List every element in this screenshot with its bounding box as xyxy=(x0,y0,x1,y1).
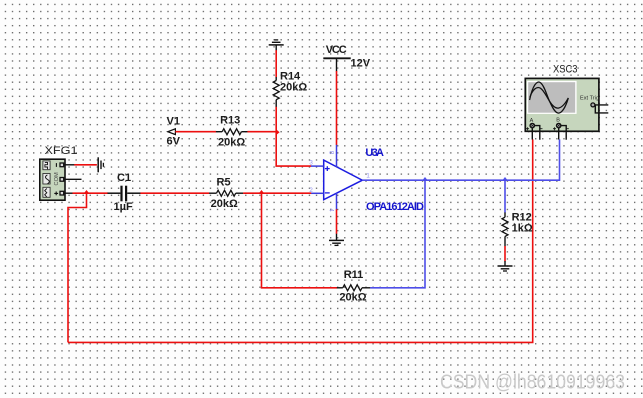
svg-text:V1: V1 xyxy=(167,116,180,128)
wire: R12 to ground xyxy=(504,246,506,261)
capacitor C1 1uF xyxy=(108,172,141,213)
node A junction (R13 joins R14 line) xyxy=(276,129,279,135)
node E junction (R12 tap) xyxy=(502,177,507,180)
svg-text:R14: R14 xyxy=(280,70,301,82)
wire: C1 to R5 xyxy=(140,192,209,194)
wire: XFG1 to C1 xyxy=(73,192,109,194)
resistor R5 20kOhm (horizontal) xyxy=(209,177,243,211)
wire: node E down to R12 xyxy=(504,180,506,212)
wire: R5 to op-amp pin 2 xyxy=(243,192,311,194)
svg-text:8: 8 xyxy=(327,151,334,155)
wire: XFG1 top terminal stub xyxy=(64,164,75,166)
svg-text:R11: R11 xyxy=(344,269,364,281)
wire: R13 to node A xyxy=(247,131,277,133)
ground GND (XFG1, rotated 90) xyxy=(98,157,103,172)
svg-text:6V: 6V xyxy=(167,136,181,148)
wire: node B jog down-left xyxy=(68,193,87,342)
oscilloscope XSC3 ext trig prongs xyxy=(595,105,609,113)
wire: VCC to op-amp pin 8 xyxy=(336,71,338,145)
op-amp U3A pin 2 stub xyxy=(311,192,324,194)
svg-text:20kΩ: 20kΩ xyxy=(339,292,366,304)
svg-text:3: 3 xyxy=(309,160,313,167)
svg-text:OPA1612AID: OPA1612AID xyxy=(366,201,424,213)
svg-text:C1: C1 xyxy=(117,172,131,184)
svg-text:VCC: VCC xyxy=(326,44,347,56)
svg-text:1: 1 xyxy=(366,172,370,179)
power VCC 12V xyxy=(323,44,370,72)
svg-text:R5: R5 xyxy=(217,177,231,189)
wire: top ground to R14 xyxy=(275,50,277,77)
oscilloscope XSC3 xyxy=(525,64,599,132)
svg-text:4: 4 xyxy=(328,208,335,212)
svg-text:XFG1: XFG1 xyxy=(45,145,78,157)
wire: R14 to node A xyxy=(275,107,277,132)
resistor R12 1kOhm (vertical) xyxy=(502,212,533,247)
svg-text:U3A: U3A xyxy=(365,147,384,159)
resistor R13 20kOhm (horizontal) xyxy=(216,115,248,149)
source V1 6V arrow xyxy=(167,116,181,148)
op-amp U3A OPA1612AID xyxy=(324,160,363,200)
svg-text:XSC3: XSC3 xyxy=(553,64,578,76)
svg-text:1kΩ: 1kΩ xyxy=(512,222,533,234)
svg-text:20kΩ: 20kΩ xyxy=(218,136,245,148)
ground GND top (above R14), rotated 180 xyxy=(269,40,284,51)
node C junction (feedback tap) xyxy=(259,190,264,193)
ground GND (below R12) xyxy=(498,261,513,271)
wire: node C down to R11 xyxy=(262,193,338,288)
wire: op-amp pin 4 to ground xyxy=(336,209,338,234)
wire: XFG1 COM stub xyxy=(64,178,82,180)
svg-text:12V: 12V xyxy=(351,58,371,70)
op-amp U3A pin 4 stub xyxy=(336,193,338,210)
resistor R11 20kOhm (horizontal) xyxy=(337,269,371,304)
wire: op-amp output to scope B xyxy=(362,139,559,180)
wire: node A down and right to op-amp pin 3 xyxy=(276,132,311,166)
svg-text:20kΩ: 20kΩ xyxy=(211,198,238,210)
svg-text:B: B xyxy=(556,117,560,123)
svg-text:Ext Trig: Ext Trig xyxy=(580,96,599,102)
svg-text:R13: R13 xyxy=(220,115,240,127)
op-amp U3A pin 3 stub xyxy=(311,165,324,167)
svg-text:COM: COM xyxy=(54,172,60,185)
wire: V1 to R13 xyxy=(175,131,216,133)
ground GND (op-amp pin 4) xyxy=(329,234,344,246)
resistor R14 20kOhm (vertical) xyxy=(273,70,307,107)
oscilloscope XSC3 terminal A prongs xyxy=(532,126,540,140)
svg-text:1µF: 1µF xyxy=(114,201,133,213)
node B junction (bottom loop tap) xyxy=(84,190,89,193)
wire: XFG1 + terminal stub xyxy=(64,192,73,194)
oscilloscope XSC3 terminal B prongs xyxy=(559,126,567,140)
wire: XFG1 to side ground xyxy=(74,164,97,166)
wire: bottom loop to scope A xyxy=(68,139,533,342)
svg-text:20kΩ: 20kΩ xyxy=(280,82,307,94)
op-amp U3A pin 8 stub xyxy=(336,145,338,167)
svg-text:CSDN @lh8610919963: CSDN @lh8610919963 xyxy=(440,372,625,394)
node D junction (R11 joins output) xyxy=(422,177,427,180)
function generator XFG1 xyxy=(40,145,78,200)
wire: R11 up to output net xyxy=(370,180,425,288)
